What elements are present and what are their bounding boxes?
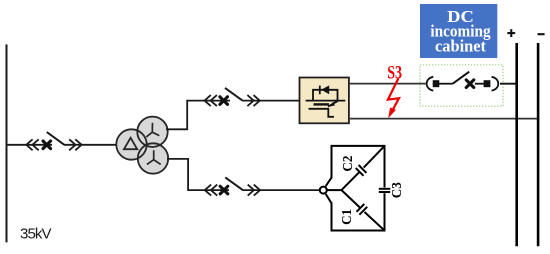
svg-text:S3: S3	[387, 63, 402, 84]
svg-text:35kV: 35kV	[20, 225, 52, 242]
svg-text:C2: C2	[340, 155, 355, 171]
svg-text:cabinet: cabinet	[435, 37, 486, 56]
svg-text:C3: C3	[389, 182, 404, 198]
svg-text:C1: C1	[339, 209, 354, 225]
